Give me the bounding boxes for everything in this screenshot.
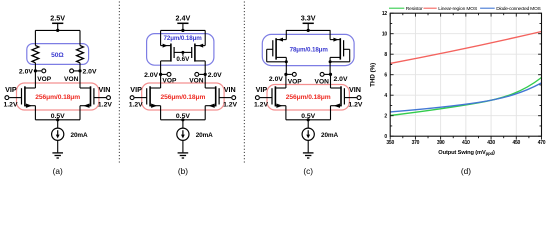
svg-text:20mA: 20mA [321,132,338,139]
svg-text:410: 410 [462,140,470,146]
svg-text:Output Swing (mVppd): Output Swing (mVppd) [438,150,495,156]
svg-text:1.2V: 1.2V [223,102,237,109]
current source 20mA a [52,120,64,153]
node VON b [204,73,207,76]
svg-text:1.2V: 1.2V [129,102,143,109]
svg-text:470: 470 [538,140,546,146]
svg-text:(b): (b) [178,166,188,176]
svg-text:1.2V: 1.2V [254,102,268,109]
node VOP a [34,69,37,72]
svg-text:12: 12 [382,11,388,17]
supply rail c [286,29,331,31]
svg-text:VON: VON [64,76,79,83]
svg-text:VIN: VIN [224,85,236,94]
svg-text:2.0V: 2.0V [83,69,97,76]
svg-text:VIN: VIN [99,85,111,94]
svg-text:VIN: VIN [349,85,361,94]
transistor M2 (right NMOS) c [331,74,357,119]
tail node 0.5V c [286,119,331,121]
svg-text:VOP: VOP [37,76,52,83]
svg-text:6: 6 [384,73,387,79]
supply rail a [35,29,80,31]
svg-text:VON: VON [315,78,330,85]
svg-text:2.4V: 2.4V [176,13,191,22]
curve Linear-region MOS (red) [390,32,541,64]
tail node 0.5V a [35,119,80,121]
transistor M2 (right NMOS) a [80,71,106,120]
svg-text:50Ω: 50Ω [51,52,64,59]
svg-text:4: 4 [384,93,387,99]
curve Diode-connected MOS (blue) [390,83,541,112]
chart frame [390,13,541,136]
transistor M1 (left NMOS) c [260,74,286,119]
axis ticks [390,13,541,139]
svg-text:2.0V: 2.0V [208,72,222,79]
svg-text:0.6V: 0.6V [176,56,190,63]
tail node 0.5V b [161,119,206,121]
node VOP b [159,73,162,76]
svg-text:20mA: 20mA [196,132,213,139]
ground b [178,153,189,158]
input VIN a [107,96,111,100]
svg-text:0.5V: 0.5V [301,113,315,120]
current source 20mA c [302,120,314,153]
node VON c [329,73,332,76]
svg-text:72μm/0.18μm: 72μm/0.18μm [164,35,203,42]
svg-text:350: 350 [386,140,394,146]
svg-text:450: 450 [512,140,520,146]
transistor M3 (left linear PMOS) [161,30,183,74]
supply 2.5V a [50,13,65,30]
device-size box (differential pair) b [142,83,224,110]
svg-text:2.0V: 2.0V [269,76,283,83]
svg-text:Diode-connected MOS: Diode-connected MOS [496,6,541,12]
svg-text:VON: VON [189,77,204,84]
svg-text:VIP: VIP [256,85,268,94]
supply rail b [161,29,206,31]
ground a [52,153,63,158]
svg-text:8: 8 [384,52,387,58]
svg-text:Linear-region MOS: Linear-region MOS [438,6,478,12]
load box (diode-connected PMOS) c [262,34,354,65]
svg-text:VIP: VIP [130,85,142,94]
load box (linear-region PMOS) b [147,34,214,66]
transistor M1 (left NMOS) b [135,74,161,119]
ground c [303,153,314,158]
transistor M1 (left NMOS) a [9,71,35,120]
svg-text:(c): (c) [303,166,313,176]
svg-text:390: 390 [437,140,445,146]
input VIP a [5,96,9,100]
svg-text:0.5V: 0.5V [176,113,190,120]
current source 20mA b [177,120,189,153]
svg-text:2.0V: 2.0V [144,72,158,79]
transistor M6 (right diode-connected PMOS) [329,30,350,74]
svg-text:1.2V: 1.2V [4,102,18,109]
transistor M4 (right linear PMOS) [183,30,205,74]
svg-text:10: 10 [382,32,388,38]
input VIN c [357,96,361,100]
supply 2.4V b [176,13,191,30]
input VIP b [130,96,134,100]
svg-text:1.2V: 1.2V [348,102,362,109]
svg-text:370: 370 [412,140,420,146]
divider between (b) and (c) [243,2,245,165]
svg-text:256μm/0.18μm: 256μm/0.18μm [160,94,205,101]
svg-text:256μm/0.18μm: 256μm/0.18μm [35,94,80,101]
gate bias node 0.6V [176,51,190,63]
svg-text:1.2V: 1.2V [98,102,112,109]
svg-text:2: 2 [384,114,387,120]
svg-text:2.0V: 2.0V [19,69,33,76]
node VON a [78,69,81,72]
transistor M5 (left diode-connected PMOS) [267,30,288,74]
svg-text:VIP: VIP [5,85,17,94]
input VIN b [232,96,236,100]
svg-text:VOP: VOP [162,77,177,84]
transistor M2 (right NMOS) b [205,74,231,119]
svg-text:430: 430 [487,140,495,146]
y tick labels [382,11,388,140]
node VOP c [284,73,287,76]
resistor R1 [32,30,39,71]
divider between (a) and (b) [118,2,120,165]
svg-text:(a): (a) [53,166,63,176]
svg-text:VOP: VOP [288,78,303,85]
chart legend [389,6,541,12]
svg-text:3.3V: 3.3V [301,13,316,22]
svg-text:20mA: 20mA [71,132,88,139]
svg-text:2.5V: 2.5V [50,13,65,22]
svg-text:256μm/0.18μm: 256μm/0.18μm [286,94,331,101]
svg-text:0.5V: 0.5V [51,113,65,120]
chart plot area (d) [390,13,541,136]
device-size box (differential pair) c [267,85,349,111]
svg-text:78μm/0.18μm: 78μm/0.18μm [290,47,329,54]
input VIP c [255,96,259,100]
resistor R2 [77,30,84,71]
svg-text:0: 0 [384,134,387,140]
supply 3.3V c [301,13,316,30]
x tick labels [386,140,545,146]
load box (resistors) a [27,44,89,65]
chart gridlines [390,13,541,136]
device-size box (differential pair) a [17,83,99,110]
svg-text:2.0V: 2.0V [334,76,348,83]
svg-text:THD (%): THD (%) [369,63,376,87]
svg-text:Resistor: Resistor [406,6,423,12]
curve Resistor (green) [390,78,541,116]
svg-text:(d): (d) [461,166,471,176]
